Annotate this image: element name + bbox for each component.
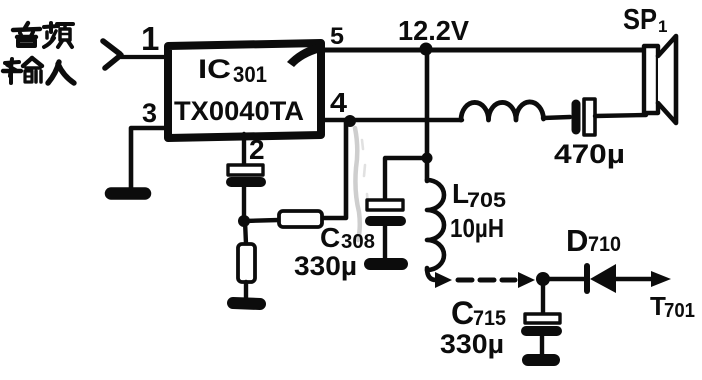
wire: pin 4 output line bbox=[323, 118, 462, 122]
label C308 bbox=[320, 222, 375, 253]
wire: pin 3 to ground bbox=[131, 128, 168, 189]
svg-text:470µ: 470µ bbox=[554, 139, 625, 169]
label L705 bbox=[452, 178, 506, 212]
inductor: output filter coil (horizontal) bbox=[461, 102, 544, 120]
wire: capacitor to feedback junction bbox=[242, 187, 246, 221]
node: C715/D710 junction bbox=[536, 272, 550, 286]
svg-text:2: 2 bbox=[249, 134, 265, 165]
wire: junction to horizontal resistor bbox=[244, 220, 279, 221]
capacitor at pin 2 bbox=[228, 165, 263, 182]
wire: diode to T701 arrow bbox=[616, 277, 654, 282]
svg-text:705: 705 bbox=[467, 189, 506, 212]
label D710 bbox=[566, 223, 621, 258]
svg-text:710: 710 bbox=[588, 233, 621, 256]
wire: C308 to ground bbox=[383, 226, 387, 258]
capacitor 470u bbox=[576, 99, 595, 135]
svg-text:715: 715 bbox=[473, 307, 506, 330]
wire: L705 bottom bend with arrow bbox=[427, 268, 436, 280]
svg-text:1: 1 bbox=[141, 20, 159, 57]
wire: C308 branch from node bbox=[385, 158, 425, 200]
svg-text:TX0040TA: TX0040TA bbox=[174, 96, 304, 126]
resistor: vertical to ground bbox=[238, 244, 255, 282]
svg-text:330µ: 330µ bbox=[440, 329, 504, 359]
wire: 470u cap to speaker bbox=[595, 115, 646, 116]
wire: coil to 470u cap bbox=[543, 117, 570, 118]
node: feedback junction bbox=[238, 215, 250, 227]
diode D710 bbox=[587, 264, 616, 293]
svg-text:308: 308 bbox=[341, 231, 375, 253]
svg-text:12.2V: 12.2V bbox=[398, 15, 469, 46]
speaker SP1 bbox=[644, 36, 676, 123]
svg-text:D: D bbox=[566, 223, 588, 258]
svg-text:10µH: 10µH bbox=[450, 213, 504, 243]
wire: supply vertical 12.2V down to L705/C308 node bbox=[425, 50, 430, 181]
node: 12.2V junction bbox=[420, 43, 433, 56]
smudge artifact streak bbox=[355, 128, 360, 240]
wire: input to pin 1 bbox=[121, 55, 168, 59]
ground: below vertical resistor bbox=[233, 303, 260, 304]
svg-text:4: 4 bbox=[330, 87, 347, 118]
dashed wire to C715 node bbox=[458, 278, 515, 283]
wire: junction to diode bbox=[543, 277, 586, 282]
input arrow bbox=[103, 41, 120, 54]
svg-text:C: C bbox=[320, 222, 340, 253]
wire: pin 2 down to capacitor bbox=[242, 134, 246, 165]
artifact mark inside IC top-right bbox=[287, 44, 321, 67]
text: 频 (audio char 2) bbox=[44, 23, 73, 47]
ground: pin 3 bbox=[111, 187, 145, 200]
svg-text:1: 1 bbox=[658, 17, 667, 36]
node: pin4 feedback junction bbox=[344, 115, 356, 127]
wire: feedback vertical from pin4 node down bbox=[322, 122, 346, 218]
text IC301 bbox=[198, 54, 267, 87]
svg-text:3: 3 bbox=[142, 98, 157, 128]
wire: top rail pin5 to speaker (12.2V rail) bbox=[323, 48, 645, 53]
svg-text:IC: IC bbox=[198, 54, 231, 84]
label T701 bbox=[650, 291, 695, 322]
inductor L705 bbox=[427, 180, 444, 270]
wire: resistor to ground bbox=[244, 282, 248, 299]
resistor: horizontal feedback bbox=[279, 211, 322, 227]
label SP1 bbox=[623, 4, 667, 36]
svg-text:C: C bbox=[451, 295, 474, 331]
wire: junction down to C715 bbox=[541, 279, 545, 314]
IC IC301 box bbox=[168, 43, 321, 138]
ground: C715 bbox=[528, 354, 554, 366]
ground: C308 bbox=[370, 258, 402, 270]
capacitor C715 bbox=[525, 314, 560, 331]
svg-text:5: 5 bbox=[330, 23, 344, 50]
text: 入 (input char 2) bbox=[48, 62, 74, 83]
svg-text:SP: SP bbox=[623, 4, 657, 36]
wire: junction down to vertical resistor bbox=[245, 221, 246, 244]
label C715 bbox=[451, 295, 506, 331]
node: C308/L705 junction bbox=[422, 153, 433, 164]
svg-text:701: 701 bbox=[664, 300, 695, 322]
text: 音 (audio char 1) bbox=[13, 23, 40, 46]
capacitor C308 bbox=[367, 200, 403, 221]
text: 输 (input char 1) bbox=[3, 58, 42, 83]
svg-text:330µ: 330µ bbox=[294, 251, 357, 281]
wire: C715 to ground bbox=[540, 336, 544, 355]
svg-text:301: 301 bbox=[233, 62, 267, 87]
